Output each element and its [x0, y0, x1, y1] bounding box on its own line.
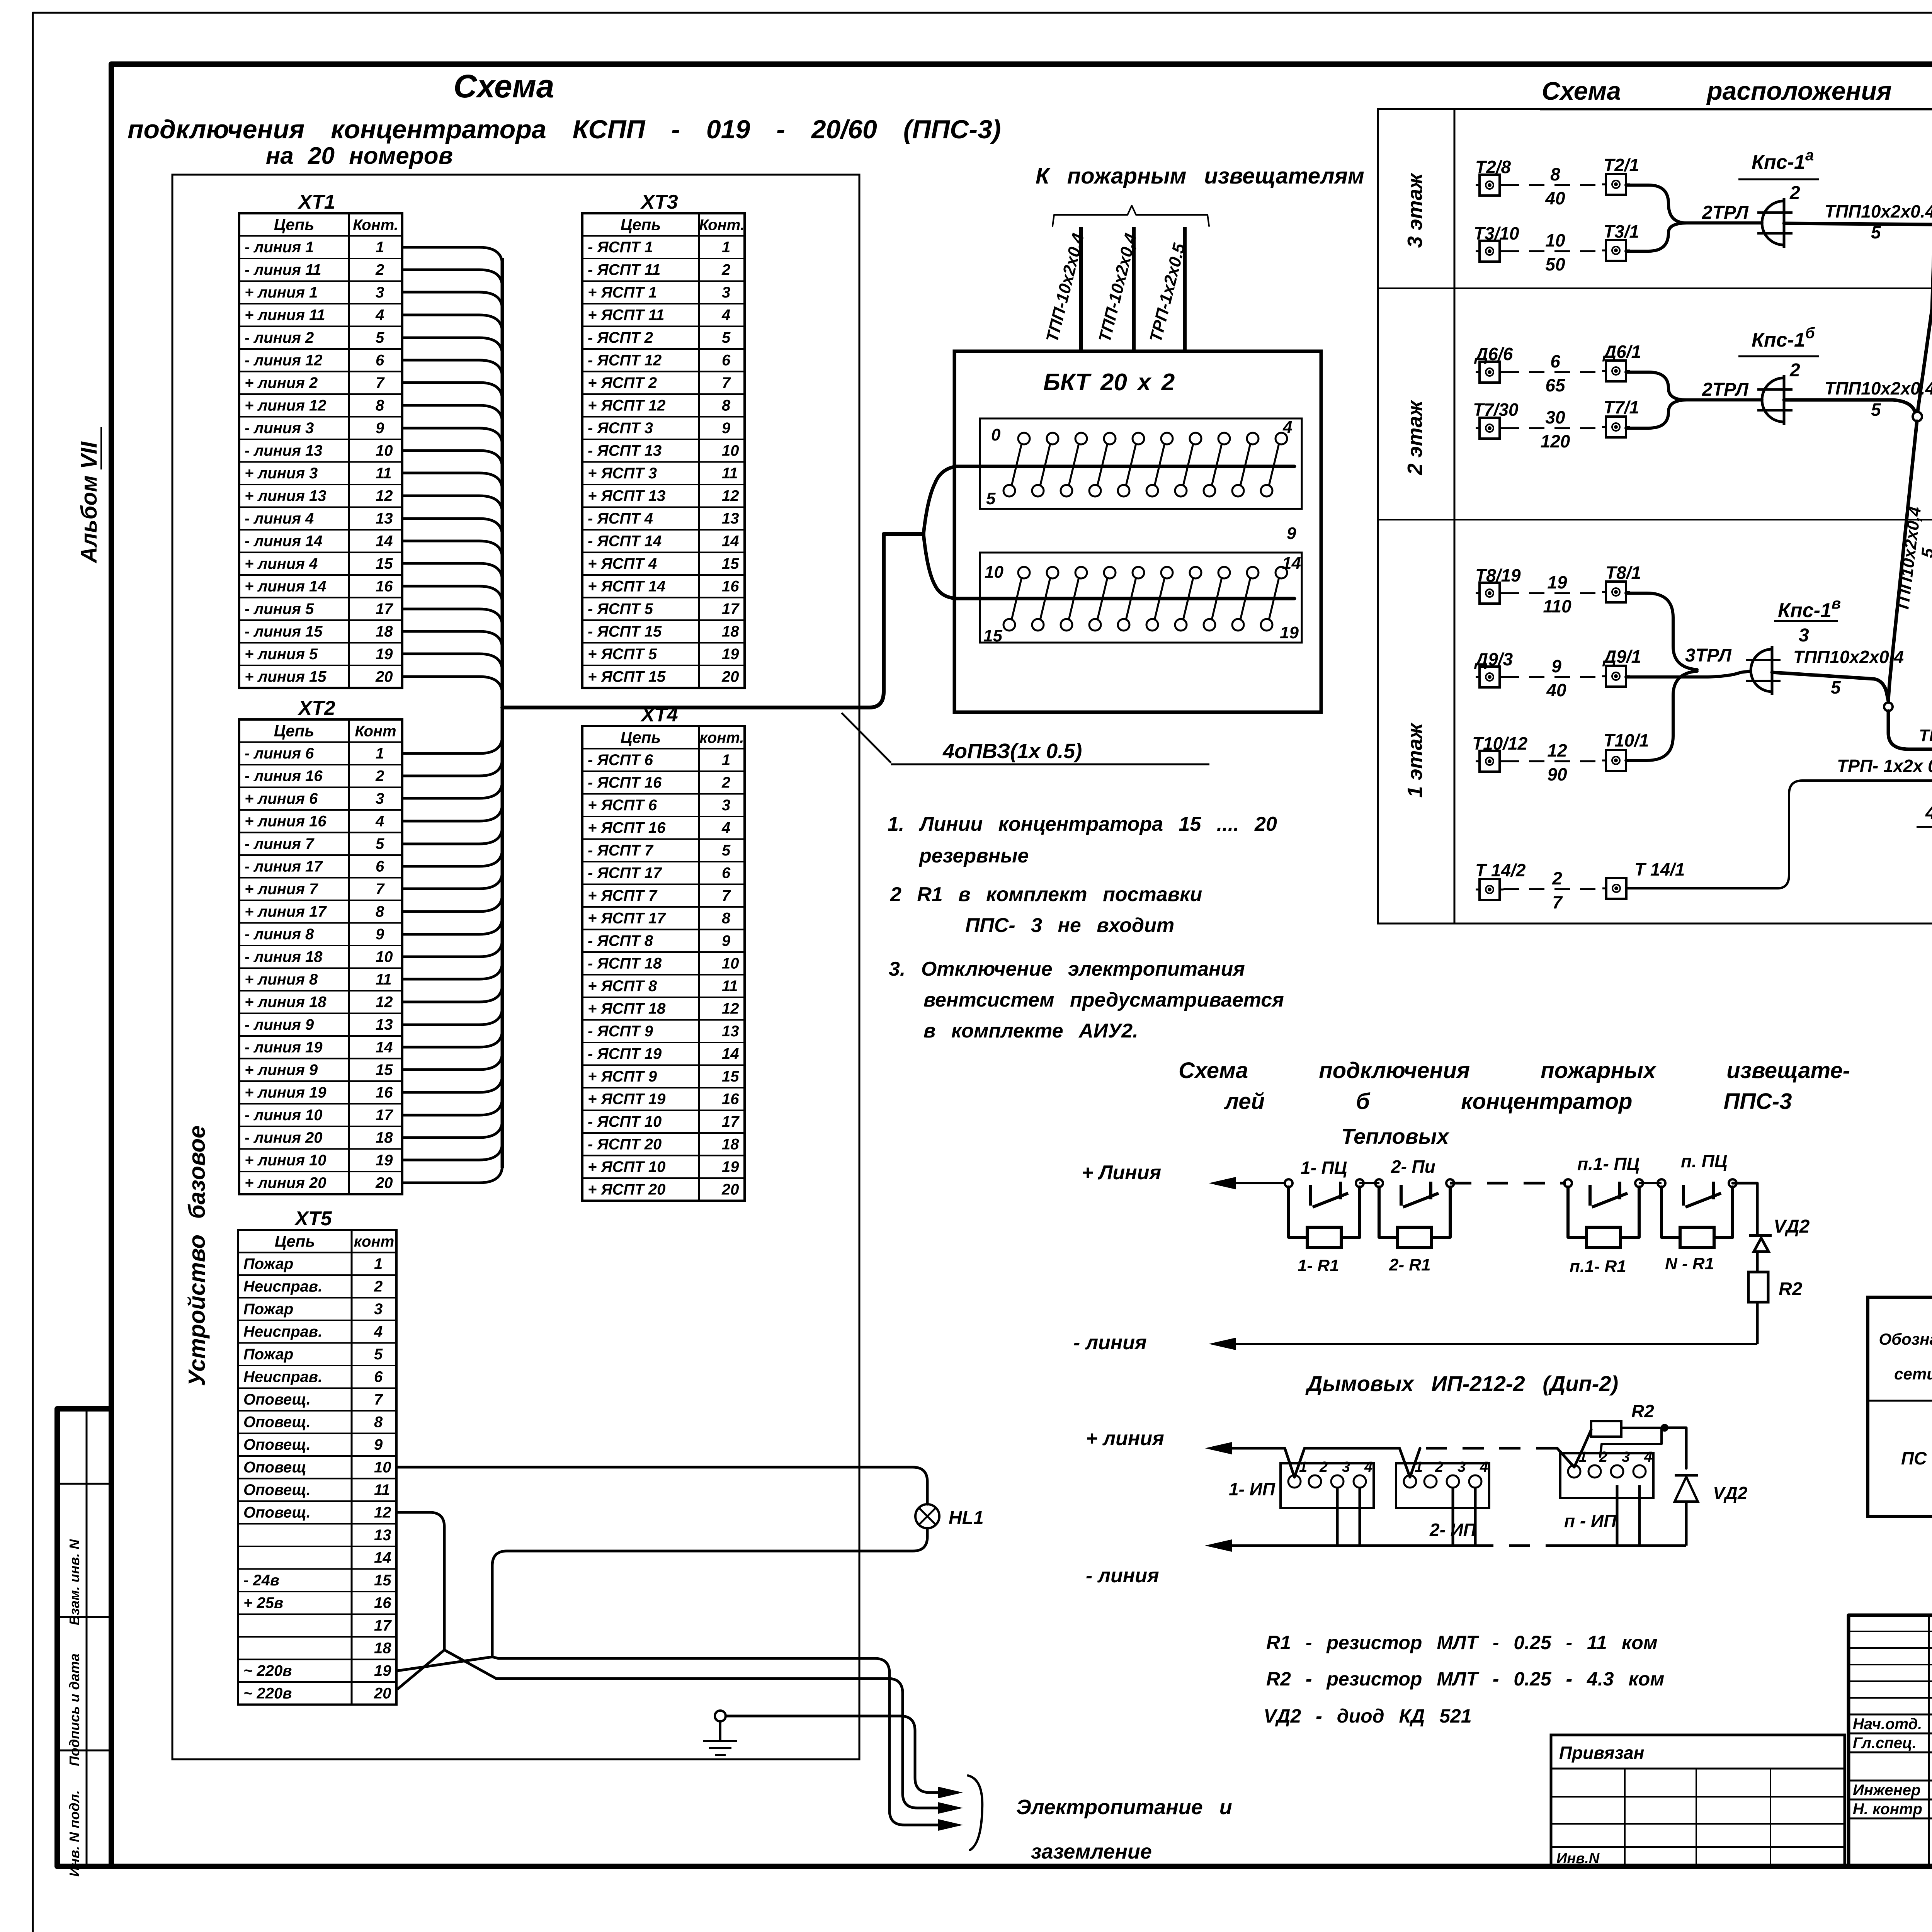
svg-text:VД2: VД2 [1774, 1216, 1810, 1237]
svg-text:Взам. инв. N: Взам. инв. N [66, 1539, 82, 1626]
svg-text:16: 16 [722, 578, 739, 595]
svg-text:- ЯСПТ 12: - ЯСПТ 12 [588, 352, 662, 369]
svg-text:заземление: заземление [1031, 1840, 1152, 1863]
svg-text:1- ИП: 1- ИП [1229, 1479, 1276, 1499]
coupler КПС-1б [1738, 325, 1819, 425]
svg-text:Т3/1: Т3/1 [1604, 221, 1639, 241]
svg-text:- линия 18: - линия 18 [245, 949, 323, 966]
detector Т8/19 [1475, 565, 1521, 604]
svg-text:Т10/1: Т10/1 [1604, 730, 1649, 750]
svg-text:40: 40 [1546, 680, 1566, 700]
svg-text:Кпс-1: Кпс-1 [1752, 151, 1805, 173]
svg-text:7: 7 [722, 887, 731, 904]
svg-text:+ линия 7: + линия 7 [245, 881, 318, 898]
svg-text:ХТ3: ХТ3 [640, 191, 678, 213]
svg-text:9: 9 [722, 932, 731, 949]
svg-text:13: 13 [376, 1016, 393, 1033]
svg-text:на 20 номеров: на 20 номеров [266, 143, 453, 169]
svg-text:+ линия 6: + линия 6 [245, 790, 318, 807]
svg-text:ПС: ПС [1901, 1448, 1927, 1468]
svg-text:1- ПЦ: 1- ПЦ [1301, 1158, 1347, 1178]
svg-text:1: 1 [722, 752, 730, 769]
svg-text:Конт: Конт [355, 723, 396, 740]
svg-text:- ЯСПТ 10: - ЯСПТ 10 [588, 1113, 662, 1130]
heat detector 2-ПИ [1375, 1156, 1454, 1274]
svg-text:Т7/30: Т7/30 [1473, 400, 1519, 420]
svg-text:19: 19 [722, 646, 739, 663]
smoke detector 2-ИП [1396, 1459, 1489, 1540]
svg-text:110: 110 [1543, 596, 1571, 616]
svg-text:п.1- R1: п.1- R1 [1570, 1257, 1626, 1276]
svg-text:+ ЯСПТ 17: + ЯСПТ 17 [588, 910, 666, 927]
wire segment [1639, 1182, 1662, 1184]
svg-text:2: 2 [374, 1278, 383, 1295]
svg-text:Цепь: Цепь [275, 1232, 315, 1250]
svg-text:90: 90 [1547, 764, 1567, 784]
svg-text:Обознач.: Обознач. [1879, 1330, 1932, 1348]
svg-text:К пожарным извещателям: К пожарным извещателям [1036, 163, 1364, 189]
svg-text:Д6/1: Д6/1 [1602, 342, 1641, 362]
svg-text:Гл.спец.: Гл.спец. [1853, 1735, 1917, 1752]
svg-text:+ линия 9: + линия 9 [245, 1061, 318, 1078]
detector T3/1 [1602, 221, 1639, 261]
svg-text:- ЯСПТ 13: - ЯСПТ 13 [588, 442, 662, 459]
svg-text:Оповещ.: Оповещ. [243, 1436, 311, 1453]
svg-text:Т8/19: Т8/19 [1475, 565, 1521, 585]
svg-text:4: 4 [1364, 1459, 1372, 1475]
svg-text:9: 9 [1551, 656, 1561, 676]
svg-text:- ЯСПТ 15: - ЯСПТ 15 [588, 623, 662, 640]
svg-text:Т 14/2: Т 14/2 [1475, 860, 1526, 880]
svg-text:Электропитание и: Электропитание и [1016, 1796, 1232, 1819]
svg-text:11: 11 [722, 978, 738, 995]
svg-text:6: 6 [376, 352, 384, 369]
ground symbol [703, 1711, 737, 1755]
svg-text:Д9/1: Д9/1 [1602, 646, 1641, 667]
svg-text:Цепь: Цепь [274, 216, 315, 234]
svg-text:+ линия 13: + линия 13 [245, 488, 327, 505]
detector Т8/1 [1602, 563, 1641, 602]
svg-text:резервные: резервные [918, 845, 1029, 867]
svg-text:120: 120 [1541, 431, 1570, 451]
svg-text:б: б [1805, 325, 1815, 342]
svg-text:5: 5 [1871, 400, 1881, 420]
label 3ТРЛ (1в) [1685, 645, 1732, 666]
label 4оПВЗ(1х0.5) [842, 713, 1209, 764]
svg-text:8: 8 [376, 397, 384, 414]
svg-text:9: 9 [1287, 524, 1296, 543]
svg-text:19: 19 [376, 646, 393, 663]
svg-text:6: 6 [722, 352, 731, 369]
svg-text:4: 4 [721, 307, 730, 324]
line +линия (smoke) [1086, 1427, 1232, 1454]
svg-text:6: 6 [722, 865, 731, 882]
svg-text:- 24в: - 24в [243, 1572, 279, 1589]
svg-text:п.1- ПЦ: п.1- ПЦ [1577, 1154, 1639, 1174]
wire output КПС-1а [1784, 201, 1932, 411]
svg-text:1. Линии концентратора 15: 1. Линии концентратора 15 .... 20 [888, 813, 1277, 835]
svg-text:18: 18 [376, 623, 393, 640]
svg-text:Нач.отд.: Нач.отд. [1853, 1716, 1922, 1733]
svg-text:+ линия 20: + линия 20 [245, 1175, 327, 1192]
wire T2/T3 to gate [1626, 185, 1762, 251]
svg-text:9: 9 [376, 926, 384, 943]
svg-text:Конт.: Конт. [699, 217, 745, 234]
wire Д6/Т7 to gate [1626, 372, 1762, 428]
ray Т14 dash [1503, 868, 1602, 912]
svg-text:5: 5 [722, 329, 731, 346]
svg-text:+ ЯСПТ 3: + ЯСПТ 3 [588, 465, 657, 482]
svg-text:Подпись и дата: Подпись и дата [66, 1653, 82, 1766]
svg-text:+ ЯСПТ 4: + ЯСПТ 4 [588, 555, 657, 572]
svg-text:+ линия: + линия [1086, 1427, 1164, 1450]
svg-text:- линия 7: - линия 7 [245, 835, 315, 852]
svg-text:12: 12 [374, 1504, 391, 1521]
connector table ХТ5 [238, 1207, 396, 1705]
svg-text:Схема подключения пожарных изв: Схема подключения пожарных извещате- [1179, 1058, 1850, 1083]
svg-text:+ линия 16: + линия 16 [245, 813, 327, 830]
svg-text:Привязан: Привязан [1559, 1743, 1644, 1763]
wire ТРП-1х2х0.5 to БКТ [1626, 756, 1932, 888]
svg-text:+ ЯСПТ 11: + ЯСПТ 11 [588, 307, 664, 324]
svg-text:ХТ1: ХТ1 [297, 191, 335, 213]
svg-text:2 этаж: 2 этаж [1403, 399, 1427, 475]
svg-text:+ ЯСПТ 7: + ЯСПТ 7 [588, 887, 658, 904]
svg-text:конт.: конт. [699, 730, 744, 747]
wire harness from XT1/XT2 to БКТ [402, 247, 1294, 1183]
svg-text:10: 10 [376, 442, 393, 459]
svg-text:R2: R2 [1779, 1279, 1803, 1299]
svg-text:+ линия 11: + линия 11 [245, 307, 325, 324]
ray Д9 dash [1503, 656, 1602, 700]
wire БКТ to ППС-3 (40 ПВЗ) [1917, 792, 1932, 865]
svg-text:Пожар: Пожар [243, 1301, 293, 1318]
svg-text:17: 17 [722, 1113, 740, 1130]
svg-text:10: 10 [374, 1459, 391, 1476]
svg-text:13: 13 [722, 1023, 739, 1040]
svg-text:10: 10 [985, 563, 1003, 582]
svg-text:9: 9 [374, 1436, 383, 1453]
svg-text:10: 10 [722, 442, 739, 459]
floor plan frame [1378, 109, 1932, 923]
wire XT5:10 to lamp [396, 1467, 927, 1504]
svg-text:- ЯСПТ 7: - ЯСПТ 7 [588, 842, 654, 859]
svg-text:+ линия 15: + линия 15 [245, 668, 327, 685]
detector Т10/12 [1472, 733, 1528, 772]
svg-text:- линия 9: - линия 9 [245, 1016, 314, 1033]
wire ground to output [726, 1716, 963, 1798]
title: Схема расположения сетей пожарной сигнализации [1540, 77, 1932, 109]
svg-text:- ЯСПТ 20: - ЯСПТ 20 [588, 1136, 662, 1153]
svg-text:- ЯСПТ 6: - ЯСПТ 6 [588, 752, 653, 769]
svg-text:+ линия 4: + линия 4 [245, 555, 318, 572]
svg-text:9: 9 [376, 420, 384, 437]
svg-text:19: 19 [722, 1158, 739, 1175]
svg-text:- ЯСПТ 2: - ЯСПТ 2 [588, 329, 653, 346]
svg-text:- линия 15: - линия 15 [245, 623, 323, 640]
svg-text:Оповещ.: Оповещ. [243, 1391, 311, 1408]
detector Т10/1 [1602, 730, 1649, 771]
svg-text:2ТРЛ: 2ТРЛ [1702, 202, 1749, 223]
coupler КПС-1а [1738, 147, 1819, 248]
svg-text:- линия 14: - линия 14 [245, 533, 323, 550]
svg-text:Т3/10: Т3/10 [1474, 223, 1519, 243]
wire R2 to diode junction [1600, 1424, 1686, 1468]
svg-text:- линия 2: - линия 2 [245, 329, 314, 346]
svg-text:13: 13 [722, 510, 739, 527]
svg-text:2: 2 [1319, 1459, 1328, 1475]
svg-text:4: 4 [1644, 1449, 1652, 1465]
heat detector 1-ПЦ [1285, 1158, 1364, 1275]
svg-text:2: 2 [1552, 868, 1562, 888]
svg-text:10: 10 [722, 955, 739, 972]
svg-text:4о ПВЗ(1х0.5): 4о ПВЗ(1х0.5) [1925, 802, 1932, 823]
detector Д6/6 [1474, 344, 1513, 383]
svg-text:конт: конт [354, 1233, 394, 1250]
svg-text:12: 12 [1547, 740, 1567, 760]
svg-text:11: 11 [374, 1481, 390, 1498]
svg-text:20: 20 [721, 1181, 739, 1198]
svg-text:50: 50 [1545, 254, 1565, 274]
svg-text:- ЯСПТ 16: - ЯСПТ 16 [588, 774, 662, 791]
svg-text:+ ЯСПТ 1: + ЯСПТ 1 [588, 284, 657, 301]
svg-text:3: 3 [1622, 1449, 1630, 1465]
svg-text:HL1: HL1 [949, 1508, 984, 1528]
svg-text:5: 5 [1831, 677, 1841, 697]
svg-text:Неисправ.: Неисправ. [243, 1323, 322, 1340]
svg-text:+ ЯСПТ 15: + ЯСПТ 15 [588, 668, 666, 685]
svg-text:4оПВЗ(1х 0.5): 4оПВЗ(1х 0.5) [942, 740, 1082, 763]
svg-text:- ЯСПТ 19: - ЯСПТ 19 [588, 1046, 662, 1063]
connector table ХТ2 [239, 697, 402, 1194]
svg-text:8: 8 [722, 397, 731, 414]
svg-text:0: 0 [991, 425, 1001, 444]
svg-text:6: 6 [374, 1369, 383, 1386]
svg-text:14: 14 [722, 1046, 739, 1063]
svg-text:+ ЯСПТ 9: + ЯСПТ 9 [588, 1068, 657, 1085]
svg-text:ХТ2: ХТ2 [297, 697, 335, 719]
legend R1 R2 VD2 [1264, 1632, 1664, 1727]
table Привязан [1551, 1735, 1845, 1867]
svg-text:2ТРЛ: 2ТРЛ [1702, 379, 1749, 400]
svg-text:ТРП- 1х2х 0.5: ТРП- 1х2х 0.5 [1837, 756, 1932, 776]
svg-text:15: 15 [374, 1572, 391, 1589]
ray Д6 dash [1503, 351, 1602, 395]
svg-text:5: 5 [376, 329, 384, 346]
svg-text:в: в [1832, 595, 1841, 612]
connector table ХТ4 [582, 704, 745, 1201]
svg-text:3: 3 [722, 797, 730, 814]
svg-text:19: 19 [1280, 623, 1299, 642]
svg-text:ТПП 10х2х0.4: ТПП 10х2х0.4 [1919, 726, 1932, 745]
title Дымовых ИП-212-2 [1305, 1371, 1618, 1396]
svg-text:Устройство базовое: Устройство базовое [184, 1126, 210, 1386]
svg-text:Инв. N подл.: Инв. N подл. [66, 1790, 82, 1877]
svg-text:ТПП10х2х0.4: ТПП10х2х0.4 [1793, 647, 1904, 667]
svg-text:- линия 3: - линия 3 [245, 420, 314, 437]
wire XT5:12 to XT5:20 [396, 1512, 444, 1689]
svg-text:а: а [1805, 147, 1814, 164]
svg-text:+ ЯСПТ 13: + ЯСПТ 13 [588, 488, 665, 505]
detector Д6/1 [1602, 342, 1641, 381]
svg-text:11: 11 [722, 465, 738, 482]
svg-text:3 этаж: 3 этаж [1403, 172, 1427, 248]
svg-text:Схема расположения сетей пожар: Схема расположения сетей пожарной сигнал… [1542, 77, 1932, 105]
svg-text:5: 5 [374, 1346, 383, 1363]
svg-text:ППС- 3 не входит: ППС- 3 не входит [965, 914, 1174, 937]
svg-text:12: 12 [376, 488, 393, 505]
svg-text:Пожар: Пожар [243, 1346, 293, 1363]
svg-text:3: 3 [1342, 1459, 1350, 1475]
svg-text:12: 12 [722, 1000, 739, 1017]
svg-text:3: 3 [722, 284, 730, 301]
svg-text:+ ЯСПТ 16: + ЯСПТ 16 [588, 820, 666, 837]
svg-text:15: 15 [722, 555, 739, 572]
svg-text:17: 17 [722, 600, 740, 617]
svg-text:+ 25в: + 25в [243, 1595, 283, 1612]
svg-text:7: 7 [376, 374, 385, 391]
svg-text:Т10/12: Т10/12 [1472, 733, 1528, 753]
junction circle J-a [1913, 412, 1922, 421]
svg-text:18: 18 [722, 1136, 739, 1153]
svg-text:5: 5 [986, 489, 996, 508]
svg-text:VД2: VД2 [1713, 1483, 1748, 1503]
svg-text:Оповещ.: Оповещ. [243, 1414, 311, 1431]
lamp HL1 [915, 1504, 984, 1528]
heat detector n-ПЦ [1658, 1151, 1736, 1273]
svg-text:16: 16 [376, 1084, 393, 1101]
svg-text:+ линия 17: + линия 17 [245, 903, 327, 920]
svg-text:лей б концентратор ППС-3: лей б концентратор ППС-3 [1224, 1089, 1792, 1114]
svg-text:14: 14 [376, 1039, 393, 1056]
svg-text:7: 7 [722, 374, 731, 391]
svg-text:4: 4 [375, 307, 384, 324]
svg-text:1 этаж: 1 этаж [1403, 722, 1427, 798]
svg-text:+ ЯСПТ 14: + ЯСПТ 14 [588, 578, 665, 595]
svg-text:Д9/3: Д9/3 [1474, 649, 1513, 669]
svg-text:2: 2 [721, 774, 730, 791]
svg-text:1: 1 [376, 239, 384, 256]
wires smoke terminals down [1337, 1485, 1639, 1546]
svg-text:1- R1: 1- R1 [1298, 1256, 1339, 1275]
svg-text:4: 4 [721, 820, 730, 837]
wire J-b to БКТ bus [1888, 699, 1932, 772]
detector Т14/2 [1475, 860, 1526, 900]
svg-text:- линия 1: - линия 1 [245, 239, 314, 256]
svg-text:- ЯСПТ 5: - ЯСПТ 5 [588, 600, 653, 617]
svg-text:R1 - резистор МЛТ - 0.25 -: R1 - резистор МЛТ - 0.25 - 11 ком [1266, 1632, 1658, 1653]
wire segment [1359, 1182, 1379, 1184]
svg-text:12: 12 [376, 994, 393, 1011]
wire 220v line 2 [444, 1650, 963, 1814]
ray Т10 dash [1503, 740, 1602, 784]
svg-text:15: 15 [722, 1068, 739, 1085]
svg-text:БКТ 20 х 2: БКТ 20 х 2 [1043, 369, 1175, 396]
svg-text:17: 17 [374, 1617, 392, 1634]
svg-text:Т8/1: Т8/1 [1605, 563, 1641, 583]
svg-text:- линия 4: - линия 4 [245, 510, 314, 527]
detector Д9/3 [1474, 649, 1513, 687]
svg-text:Т7/1: Т7/1 [1604, 397, 1639, 417]
svg-text:VД2 - диод КД 521: VД2 - диод КД 521 [1264, 1705, 1472, 1727]
svg-text:Цепь: Цепь [621, 728, 661, 747]
line +Линия (heat) [1082, 1162, 1285, 1189]
svg-text:- ЯСПТ 9: - ЯСПТ 9 [588, 1023, 653, 1040]
svg-text:- ЯСПТ 11: - ЯСПТ 11 [588, 262, 660, 279]
svg-text:8: 8 [1550, 164, 1560, 184]
svg-text:18: 18 [374, 1640, 391, 1657]
svg-text:- линия 11: - линия 11 [245, 262, 321, 279]
svg-text:4: 4 [1282, 418, 1292, 437]
svg-text:+ линия 2: + линия 2 [245, 374, 318, 391]
svg-text:п - ИП: п - ИП [1564, 1511, 1617, 1531]
title: Схема подключения пожарных извещателей [1179, 1058, 1850, 1148]
svg-text:- ЯСПТ 14: - ЯСПТ 14 [588, 533, 662, 550]
svg-text:- линия 12: - линия 12 [245, 352, 323, 369]
svg-text:14: 14 [374, 1549, 391, 1566]
connector table ХТ3 [582, 191, 745, 688]
label 2ТРЛ (2 этаж) [1702, 379, 1749, 400]
line -линия (heat) [1073, 1332, 1757, 1354]
svg-text:+ линия 19: + линия 19 [245, 1084, 327, 1101]
svg-text:3: 3 [1458, 1459, 1466, 1475]
svg-text:4: 4 [375, 813, 384, 830]
svg-text:+ линия 18: + линия 18 [245, 994, 327, 1011]
svg-text:11: 11 [376, 465, 392, 482]
resistor R2 (heat loop) [1748, 1272, 1803, 1344]
svg-text:- линия 10: - линия 10 [245, 1107, 323, 1124]
svg-text:20: 20 [375, 1175, 393, 1192]
svg-text:- линия: - линия [1073, 1332, 1147, 1354]
svg-text:+ ЯСПТ 19: + ЯСПТ 19 [588, 1091, 666, 1108]
svg-text:10: 10 [1545, 230, 1565, 250]
svg-text:19: 19 [376, 1152, 393, 1169]
svg-text:+ ЯСПТ 20: + ЯСПТ 20 [588, 1181, 665, 1198]
svg-text:+ ЯСПТ 18: + ЯСПТ 18 [588, 1000, 666, 1017]
diode VД2 (heat loop) [1733, 1183, 1810, 1272]
svg-text:14: 14 [722, 533, 739, 550]
title: Схема подключения концентратора [128, 68, 1001, 169]
svg-text:3: 3 [376, 790, 384, 807]
svg-text:14: 14 [1282, 554, 1301, 573]
svg-text:Инженер: Инженер [1853, 1782, 1920, 1799]
svg-text:+ линия 5: + линия 5 [245, 646, 318, 663]
svg-text:2 R1 в комплект поставки: 2 R1 в комплект поставки [890, 883, 1202, 906]
smoke detector 1-ИП [1229, 1459, 1374, 1508]
svg-text:в комплекте АИУ2.: в комплекте АИУ2. [923, 1020, 1138, 1042]
svg-text:15: 15 [376, 1061, 393, 1078]
svg-text:Оповещ.: Оповещ. [243, 1481, 311, 1498]
svg-text:+ линия 3: + линия 3 [245, 465, 318, 482]
svg-text:+ линия 14: + линия 14 [245, 578, 327, 595]
svg-text:Неисправ.: Неисправ. [243, 1369, 322, 1386]
svg-text:17: 17 [376, 1107, 393, 1124]
svg-text:сети: сети [1894, 1365, 1932, 1383]
heat detector n-1-ПЦ [1564, 1154, 1643, 1276]
svg-text:8: 8 [376, 903, 384, 920]
svg-text:17: 17 [376, 600, 393, 617]
cables to fire detectors [1036, 163, 1364, 351]
svg-text:16: 16 [376, 578, 393, 595]
svg-text:Альбом VII: Альбом VII [77, 441, 102, 564]
svg-text:- линия 6: - линия 6 [245, 745, 314, 762]
svg-text:- линия 8: - линия 8 [245, 926, 314, 943]
detector Т7/30 [1473, 400, 1519, 439]
svg-text:18: 18 [722, 623, 739, 640]
svg-text:Кпс-1: Кпс-1 [1752, 329, 1805, 351]
svg-text:4: 4 [1480, 1459, 1488, 1475]
line -линия (smoke) [1086, 1539, 1686, 1587]
